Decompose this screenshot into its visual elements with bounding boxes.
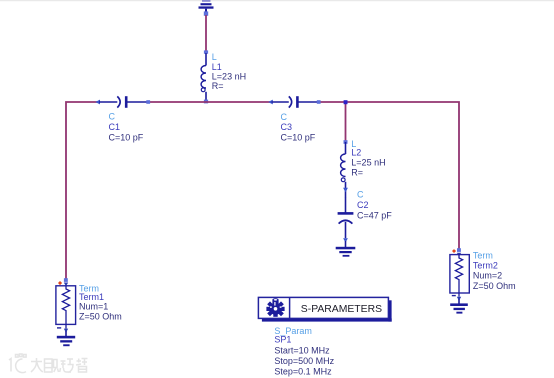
svg-text:C: C (357, 190, 364, 200)
gear icon (266, 298, 284, 317)
svg-text:Term1: Term1 (79, 292, 104, 302)
svg-text:Stop=500 MHz: Stop=500 MHz (274, 356, 334, 366)
svg-text:S-PARAMETERS: S-PARAMETERS (301, 304, 382, 315)
Term2 labels (473, 250, 516, 290)
watermark (9, 354, 88, 373)
terminal Term1 (56, 278, 76, 332)
svg-text:L=23 nH: L=23 nH (212, 71, 246, 81)
inductor L1 (201, 50, 208, 103)
svg-text:C1: C1 (109, 122, 121, 132)
svg-text:C=10 pF: C=10 pF (281, 132, 316, 142)
wire W2 (left corner to C1) (66, 102, 97, 279)
wire W1 (top ground to L1) (205, 15, 207, 52)
svg-text:C3: C3 (281, 122, 293, 132)
ground (below Term2) (450, 299, 468, 314)
svg-text:Z=50 Ohm: Z=50 Ohm (79, 311, 122, 321)
C2 labels (357, 190, 392, 221)
svg-text:C: C (281, 112, 288, 122)
svg-text:Term: Term (473, 250, 493, 260)
wire W4 (C3 to right corner to Term2) (319, 102, 460, 249)
C1 labels (109, 112, 144, 143)
wire W5 (junction down to L2) (345, 102, 347, 141)
svg-text:Z=50 Ohm: Z=50 Ohm (473, 281, 516, 291)
svg-text:C=10 pF: C=10 pF (109, 132, 144, 142)
C3 labels (281, 112, 316, 143)
ground (below Term1) (57, 331, 75, 346)
svg-text:C2: C2 (357, 200, 369, 210)
Term1 labels (79, 283, 122, 321)
ground (top, inverted) (199, 0, 214, 16)
L2 labels (351, 139, 385, 178)
svg-text:Num=1: Num=1 (79, 302, 108, 312)
svg-text:Start=10 MHz: Start=10 MHz (274, 346, 330, 356)
svg-text:Num=2: Num=2 (473, 270, 502, 280)
capacitor C2 (338, 197, 354, 243)
L1 labels (212, 52, 246, 91)
S-PARAMETERS controller box (258, 297, 391, 321)
svg-text:C=47 pF: C=47 pF (357, 210, 392, 220)
capacitor C1 (95, 96, 150, 108)
svg-text:R=: R= (212, 81, 224, 91)
svg-text:L1: L1 (212, 62, 222, 72)
svg-text:Step=0.1 MHz: Step=0.1 MHz (274, 367, 332, 377)
svg-text:C: C (109, 112, 116, 122)
S_Param labels (274, 326, 334, 377)
capacitor C3 (268, 96, 320, 108)
svg-text:L=25 nH: L=25 nH (351, 158, 385, 168)
svg-text:L2: L2 (351, 148, 361, 158)
svg-text:SP1: SP1 (274, 335, 291, 345)
svg-text:L: L (212, 52, 217, 62)
svg-text:R=: R= (351, 168, 363, 178)
svg-text:Term2: Term2 (473, 261, 498, 271)
terminal Term2 (450, 248, 469, 301)
node junction (wire T to L2) (344, 100, 348, 104)
wire W3 (C1 to C3) (149, 101, 271, 103)
inductor L2 (341, 140, 348, 197)
ground (below C2) (336, 241, 356, 257)
